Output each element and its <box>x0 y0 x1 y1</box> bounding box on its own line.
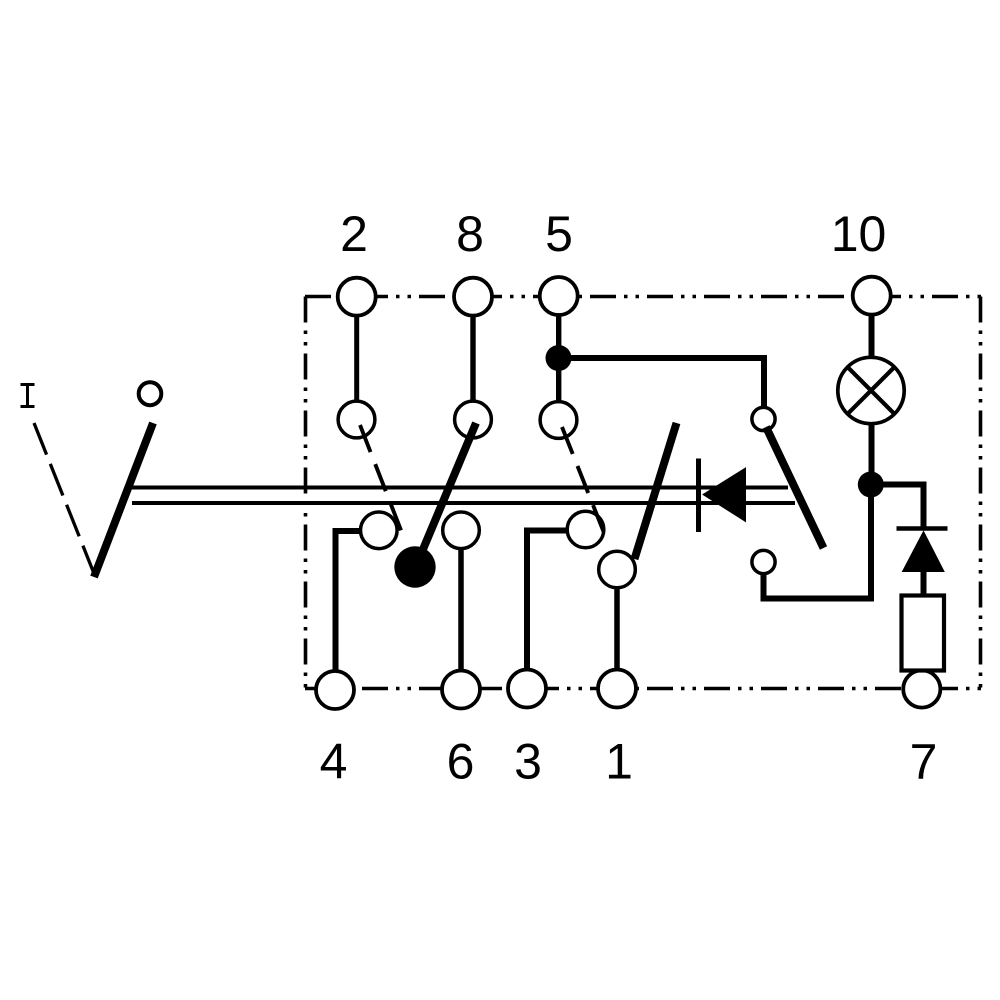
changeover lower contact circle <box>752 550 775 573</box>
wire changeover lower contact to node J2 <box>764 484 872 599</box>
terminal 2 <box>338 278 376 316</box>
terminal 6 <box>442 671 480 709</box>
svg-text:5: 5 <box>545 206 573 262</box>
diode D2 cathode bar <box>897 526 948 530</box>
movable pivot dot <box>394 546 435 587</box>
wire contact D to terminal 1 <box>614 586 620 672</box>
dashed open-contact line under 2 <box>360 425 404 538</box>
wire terminal 8 to fixed contact <box>470 300 475 404</box>
fixed contact under 8 <box>455 401 492 438</box>
wire terminal 4 to contact A <box>336 531 363 672</box>
contact D <box>599 551 636 588</box>
terminal 5 <box>540 277 578 315</box>
wire node at 5 to changeover pivot <box>559 358 765 408</box>
switch housing outline top (dash-dot) <box>305 295 981 299</box>
svg-text:1: 1 <box>605 734 633 790</box>
fixed contact under 2 <box>338 401 375 438</box>
wire terminal 10 to lamp <box>869 300 875 360</box>
changeover lever <box>766 427 824 548</box>
contact B <box>443 512 480 549</box>
terminal 10 <box>853 277 891 315</box>
dashed open-contact line under 5 <box>562 427 607 539</box>
wire terminal 5 through node to fixed contact <box>556 300 561 404</box>
svg-text:3: 3 <box>514 734 542 790</box>
wire terminal 2 to fixed contact <box>354 300 359 404</box>
diode D1 triangle (points left) <box>703 468 746 522</box>
manual lever position 0 (solid) <box>94 423 153 577</box>
svg-text:2: 2 <box>340 206 368 262</box>
svg-text:8: 8 <box>456 206 484 262</box>
switch housing outline left (dash-dot) <box>304 297 308 689</box>
wire contact B to terminal 6 <box>458 548 464 672</box>
changeover pivot upper circle <box>752 407 775 430</box>
svg-text:10: 10 <box>831 206 887 262</box>
terminal 4 <box>316 671 354 709</box>
lamp L1 body <box>838 357 904 423</box>
terminal 1 <box>598 670 636 708</box>
junction node J2 under lamp <box>858 472 884 498</box>
actuator bar lower line <box>132 501 795 505</box>
terminal 3 <box>508 670 546 708</box>
wire lamp to node J2 <box>869 421 875 484</box>
label 0 <box>139 382 162 405</box>
wire diode to resistor <box>921 570 927 598</box>
terminal 8 <box>454 278 492 316</box>
fixed contact under 5 <box>540 402 577 439</box>
wire node J2 to diode branch <box>871 485 924 529</box>
actuator bar upper line <box>129 486 788 490</box>
junction node at terminal 5 branch <box>546 345 572 371</box>
resistor R1 <box>902 596 945 671</box>
wire terminal 3 to contact C <box>527 531 568 673</box>
manual lever position I (dashed) <box>34 423 95 576</box>
switch housing outline bottom (dash-dot) <box>305 687 981 691</box>
svg-text:6: 6 <box>447 734 475 790</box>
contact C <box>567 511 604 548</box>
diode D2 triangle (points up) <box>903 532 945 572</box>
contact A <box>361 512 398 549</box>
svg-text:7: 7 <box>910 734 938 790</box>
switch housing outline right (dash-dot) <box>979 297 983 689</box>
svg-text:4: 4 <box>320 734 348 790</box>
lamp L1 cross <box>848 367 895 414</box>
lever contact 8 (closed) <box>416 423 476 566</box>
terminal 7 <box>903 670 940 707</box>
diode D1 cathode bar on actuator path <box>696 459 701 533</box>
label I <box>21 385 35 407</box>
lever contact 1 (closed) <box>635 423 677 559</box>
